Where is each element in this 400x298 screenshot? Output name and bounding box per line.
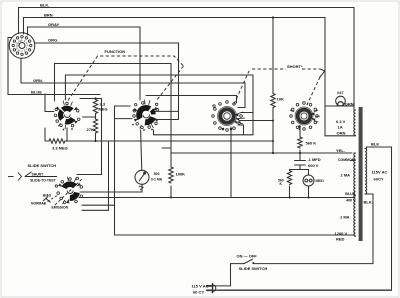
svg-text:BIAS: BIAS	[43, 193, 52, 197]
svg-text:SHUNT: SHUNT	[32, 172, 45, 176]
svg-text:60CY: 60CY	[374, 176, 384, 181]
svg-text:BLK.: BLK.	[40, 2, 49, 7]
svg-text:#47: #47	[337, 90, 344, 95]
svg-text:115 V AC: 115 V AC	[192, 284, 209, 289]
svg-text:500: 500	[154, 172, 160, 176]
svg-text:115V AC: 115V AC	[372, 169, 388, 174]
svg-text:MEG: MEG	[99, 107, 108, 112]
svg-text:BRN: BRN	[44, 12, 53, 17]
svg-text:FUNCTION: FUNCTION	[105, 49, 126, 54]
svg-text:10K: 10K	[277, 97, 284, 102]
svg-text:GRN.: GRN.	[345, 101, 355, 106]
svg-text:GRN.: GRN.	[33, 78, 43, 83]
svg-text:60 CY: 60 CY	[193, 289, 204, 294]
svg-text:560 K: 560 K	[306, 141, 317, 146]
svg-text:600 V: 600 V	[308, 163, 319, 168]
svg-text:SLIDE SWITCH: SLIDE SWITCH	[239, 266, 268, 271]
svg-text:3.3 MEG: 3.3 MEG	[52, 145, 68, 150]
svg-text:SHORT*: SHORT*	[287, 64, 303, 69]
svg-text:BLUE: BLUE	[31, 90, 42, 95]
svg-text:ORG.: ORG.	[48, 37, 58, 42]
svg-text:NE51: NE51	[316, 179, 325, 183]
svg-text:.1 MFD: .1 MFD	[308, 157, 321, 162]
svg-text:1 MA: 1 MA	[340, 214, 350, 219]
svg-text:0-1 MA: 0-1 MA	[151, 178, 163, 182]
svg-text:NORMAL: NORMAL	[31, 202, 46, 206]
svg-text:1A: 1A	[338, 124, 343, 129]
svg-text:6.3 V: 6.3 V	[336, 119, 346, 124]
svg-text:YEL.: YEL.	[336, 148, 345, 153]
svg-text:SLIDE SWITCH: SLIDE SWITCH	[28, 163, 57, 168]
svg-text:2 MA: 2 MA	[341, 172, 351, 177]
svg-text:BLK.: BLK.	[364, 199, 373, 204]
svg-text:RED: RED	[336, 236, 345, 241]
svg-text:EMISSION: EMISSION	[52, 206, 69, 210]
svg-text:BLUE: BLUE	[345, 192, 356, 196]
svg-text:1200 V: 1200 V	[335, 231, 348, 236]
svg-text:ORN: ORN	[337, 130, 346, 135]
svg-text:SLIDE-TO-TEST: SLIDE-TO-TEST	[30, 178, 56, 182]
svg-text:GRAY: GRAY	[48, 22, 60, 27]
svg-text:ON — OFF: ON — OFF	[237, 253, 258, 258]
svg-text:27K: 27K	[87, 127, 94, 132]
svg-text:BLK: BLK	[371, 141, 379, 146]
svg-text:COMMON: COMMON	[338, 158, 355, 162]
svg-text:400 V: 400 V	[346, 198, 356, 202]
svg-text:100K: 100K	[176, 171, 186, 176]
